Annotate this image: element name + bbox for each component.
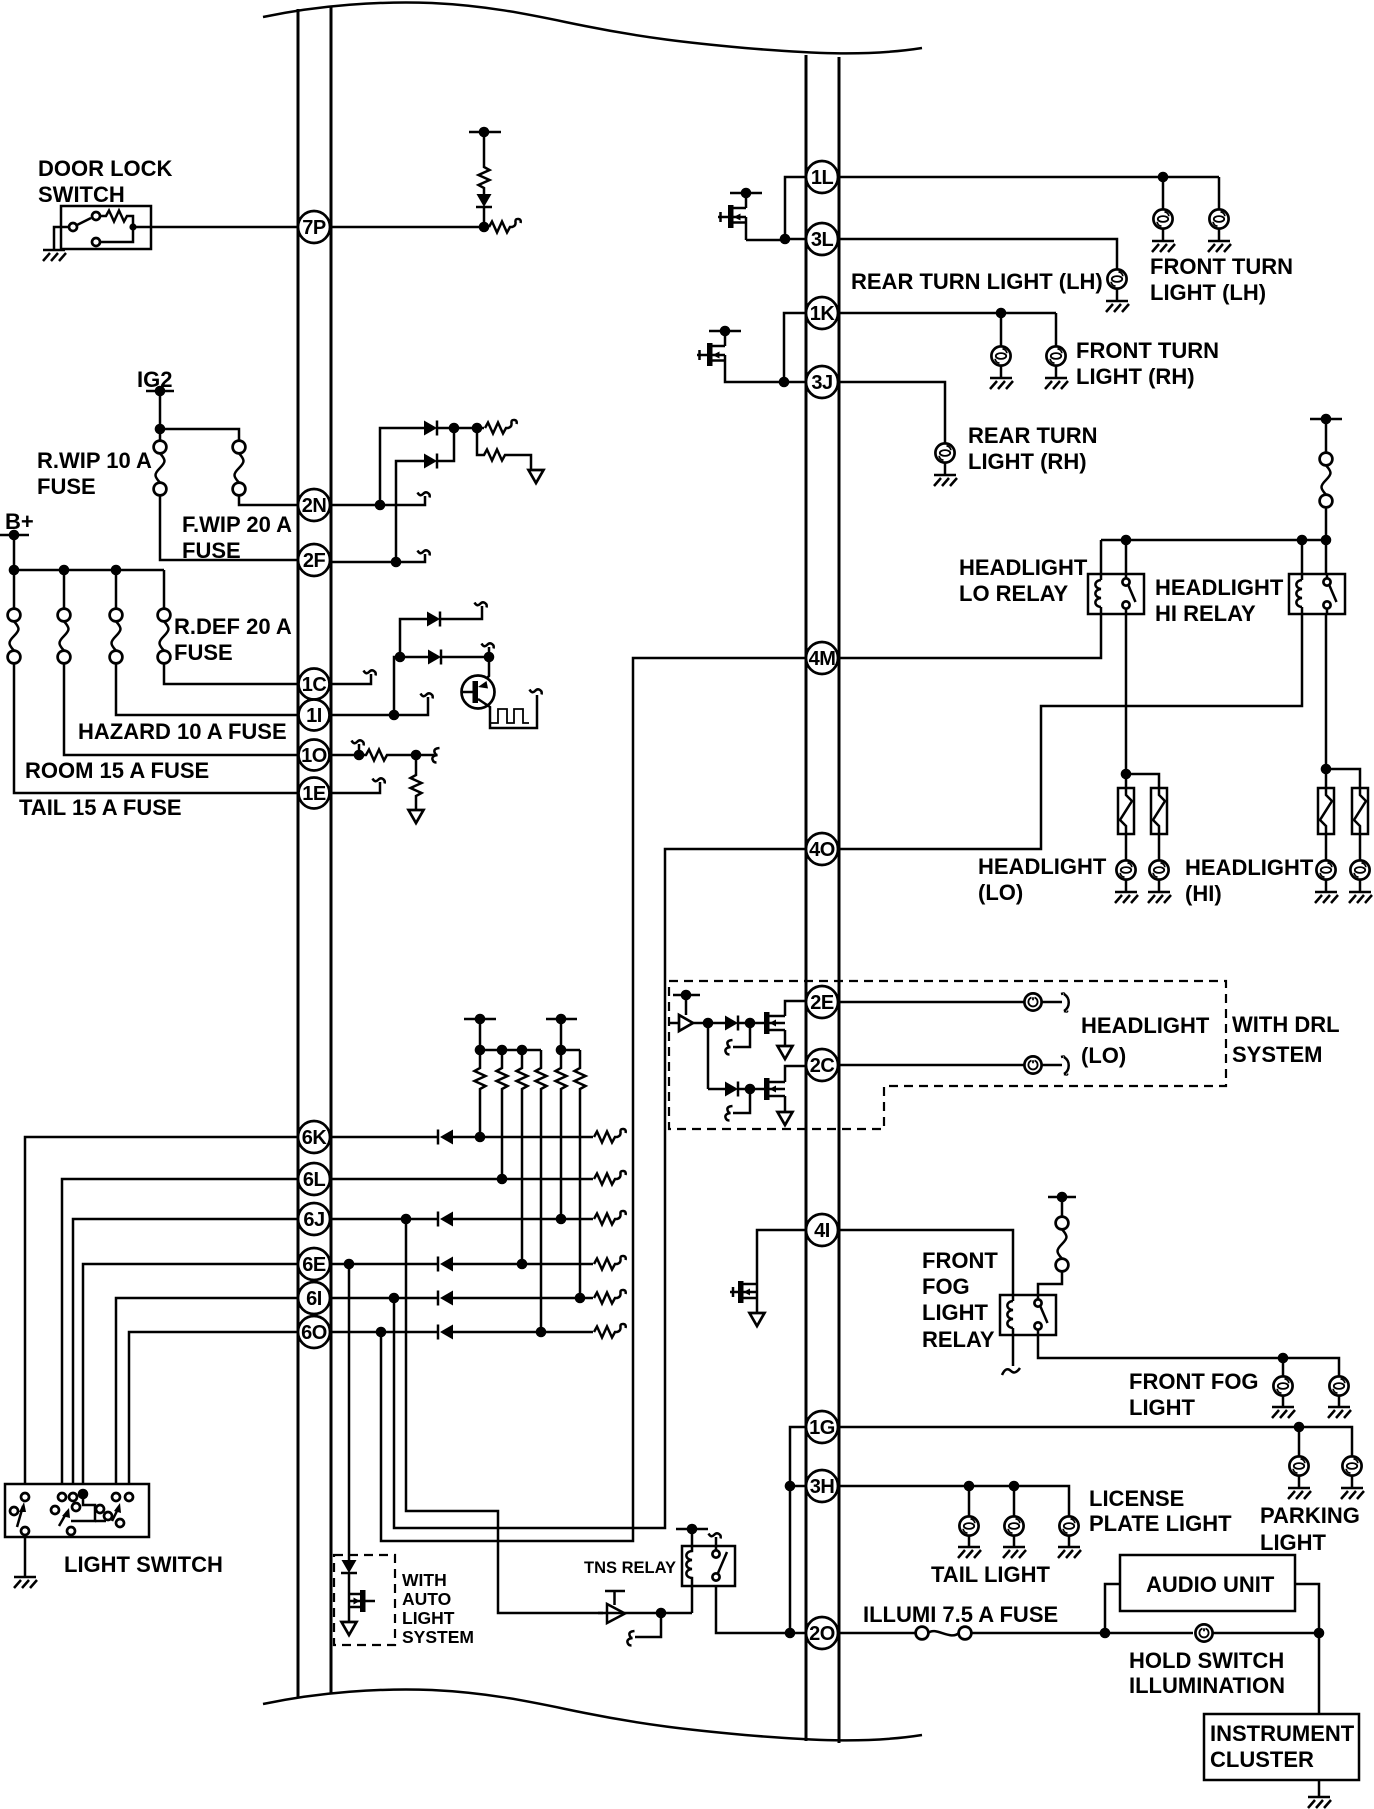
- MOSFET Q6 (2C driver): [764, 1078, 770, 1100]
- MOSFET Q2 in auto-light box: [360, 1590, 366, 1612]
- pulse waveform symbol: [491, 709, 529, 723]
- svg-text:LIGHT: LIGHT: [402, 1608, 455, 1628]
- svg-text:TAIL LIGHT: TAIL LIGHT: [931, 1562, 1051, 1587]
- svg-text:HEADLIGHT: HEADLIGHT: [1081, 1013, 1210, 1038]
- MOSFET Q7 (fog relay driver): [738, 1281, 744, 1303]
- svg-text:PARKING: PARKING: [1260, 1503, 1360, 1528]
- diode D2 (2N row): [424, 421, 437, 436]
- svg-text:(LO): (LO): [1081, 1043, 1126, 1068]
- wire HI relay switch to lamps: [1325, 614, 1328, 769]
- relay HEADLIGHT LO: [1088, 574, 1144, 614]
- wire 1I to node: [331, 714, 394, 717]
- resistor R2 continuation symbol right of node: [489, 219, 521, 233]
- resistor continuation symbol 2N row: [477, 427, 484, 430]
- connector 6J: [298, 1203, 330, 1235]
- connector 6E: [298, 1248, 330, 1280]
- svg-text:INSTRUMENT: INSTRUMENT: [1210, 1721, 1355, 1746]
- wire 2C to DRL lamp: [838, 1064, 1024, 1067]
- wire 1C stub: [331, 674, 371, 684]
- resistor continuation 6L: [594, 1171, 626, 1185]
- fuse TAIL 15 A: [13, 570, 16, 609]
- wire HAZARD fuse to 1I: [116, 663, 298, 715]
- svg-text:FRONT: FRONT: [922, 1248, 998, 1273]
- wire 1L right to front turn lamps: [838, 176, 1219, 179]
- connector 1L: [806, 161, 838, 193]
- svg-text:3H: 3H: [810, 1476, 835, 1498]
- MOSFET Q5 (2E driver): [764, 1012, 770, 1034]
- connector 7P: [298, 211, 330, 243]
- wire 6J row right: [331, 1218, 438, 1221]
- wire 2E to DRL lamp: [838, 1001, 1024, 1004]
- fusible link LO 1: [1118, 788, 1134, 834]
- svg-text:SYSTEM: SYSTEM: [402, 1627, 474, 1647]
- svg-text:6E: 6E: [302, 1254, 326, 1276]
- resistor R11: [575, 1050, 586, 1293]
- connector 3J: [806, 366, 838, 398]
- resistor R6: [475, 1050, 486, 1132]
- connector 4M: [806, 642, 838, 674]
- lamp DRL headlight LO 1: [1024, 993, 1041, 1010]
- fusible link HI 2: [1352, 788, 1368, 834]
- connector 2C: [806, 1049, 838, 1081]
- svg-text:REAR TURN LIGHT (LH): REAR TURN LIGHT (LH): [851, 269, 1103, 294]
- svg-text:LIGHT (RH): LIGHT (RH): [1076, 364, 1195, 389]
- svg-text:AUTO: AUTO: [402, 1589, 451, 1609]
- wire 2O right to illumi fuse: [838, 1632, 915, 1635]
- svg-text:1G: 1G: [809, 1417, 835, 1439]
- door lock switch internal resistor: [100, 211, 133, 228]
- DRL feed node: [673, 994, 700, 997]
- resistor bank feed node A: [464, 1018, 496, 1021]
- connector 1O: [299, 740, 330, 771]
- wire 2N to node: [331, 504, 380, 507]
- 1I stub with curl: [394, 697, 428, 715]
- svg-text:REAR TURN: REAR TURN: [968, 423, 1098, 448]
- lamp PARKING 2: [1342, 1456, 1361, 1475]
- diode D3 (2F row): [424, 454, 437, 469]
- wire 6K row right: [331, 1136, 438, 1139]
- resistor continuation 6I: [594, 1290, 626, 1304]
- lamp FRONT TURN LIGHT LH 2: [1218, 177, 1221, 209]
- diode D8 (6E row): [438, 1257, 453, 1272]
- lamp HOLD SWITCH ILLUMINATION: [1195, 1624, 1212, 1641]
- lamp TAIL 2: [1013, 1486, 1016, 1516]
- wire fog fuse to relay switch: [1038, 1271, 1062, 1295]
- svg-text:3L: 3L: [811, 229, 834, 251]
- light switch ground lead: [24, 1535, 27, 1576]
- connector 3L: [806, 223, 838, 255]
- svg-text:HEADLIGHT: HEADLIGHT: [1185, 855, 1314, 880]
- TNS switch output to 2O: [716, 1586, 806, 1633]
- fuse ROOM 15 A: [63, 570, 66, 609]
- DRL dashed enclosure: [669, 981, 1226, 1129]
- resistor R7: [497, 1050, 508, 1174]
- fuse HEAD: [1320, 453, 1333, 508]
- wire IG2 to fuse split: [159, 391, 162, 429]
- wire 2F to node: [331, 561, 396, 564]
- relay feed rail: [1101, 539, 1326, 542]
- connector 2F: [298, 544, 330, 576]
- wire 3L right to rear turn lamp: [838, 239, 1117, 269]
- svg-text:6L: 6L: [303, 1169, 326, 1191]
- wire rail down to HI relay: [1301, 540, 1304, 574]
- wire lamp to right node: [1213, 1632, 1319, 1635]
- light switch terminals: [21, 1493, 29, 1501]
- wire Q6 drain to 2C: [785, 1066, 806, 1082]
- lamp TAIL 1: [968, 1486, 971, 1516]
- light switch internal link: [71, 1494, 95, 1521]
- AUDIO UNIT box: [1120, 1555, 1295, 1611]
- wire audio unit right lead: [1295, 1584, 1319, 1633]
- connector 4O: [806, 833, 838, 865]
- diode D4 (top row): [427, 612, 440, 627]
- wire HI coil return to 4O: [838, 614, 1302, 849]
- INSTRUMENT CLUSTER box: [1204, 1714, 1359, 1780]
- door lock switch S1 box: [61, 206, 151, 249]
- svg-text:LIGHT SWITCH: LIGHT SWITCH: [64, 1552, 223, 1577]
- wire 1G left riser to 3H and 2O: [790, 1427, 806, 1633]
- svg-text:R.WIP 10 A: R.WIP 10 A: [37, 448, 152, 473]
- resistor bank bus B: [561, 1049, 580, 1052]
- svg-text:6I: 6I: [306, 1288, 322, 1310]
- svg-text:WITH: WITH: [402, 1570, 447, 1590]
- connector 4I: [806, 1214, 838, 1246]
- lamp PARKING 1: [1298, 1427, 1301, 1456]
- svg-text:SWITCH: SWITCH: [38, 182, 125, 207]
- ground below light switch: [14, 1577, 37, 1588]
- fusible link LO 2: [1151, 788, 1167, 834]
- diode D6 (6K row): [438, 1130, 453, 1145]
- resistor bank feed node B: [546, 1018, 577, 1021]
- svg-text:LIGHT: LIGHT: [1260, 1530, 1327, 1555]
- wire 3H right to tail lamps: [838, 1486, 1069, 1516]
- node junction on 7P line: [479, 222, 490, 233]
- wire 6J to light switch: [73, 1219, 298, 1484]
- svg-text:2E: 2E: [810, 992, 834, 1014]
- lamp FRONT TURN LIGHT RH 1: [1000, 313, 1003, 346]
- wire 3L left: [785, 238, 806, 241]
- lamp LICENSE PLATE: [1059, 1516, 1078, 1535]
- connector 2O: [806, 1617, 838, 1649]
- resistor continuation 6J: [594, 1211, 626, 1225]
- diode D11 in auto-light box: [341, 1560, 357, 1573]
- svg-text:LIGHT: LIGHT: [1129, 1395, 1196, 1420]
- svg-text:TNS RELAY: TNS RELAY: [584, 1559, 676, 1577]
- ground under lamp: [1152, 241, 1175, 252]
- with-auto-light dashed box: [334, 1555, 395, 1645]
- wire 6E to light switch: [83, 1264, 298, 1484]
- svg-text:ILLUMI 7.5 A FUSE: ILLUMI 7.5 A FUSE: [863, 1602, 1058, 1627]
- door lock switch ground lead: [54, 227, 69, 249]
- wire R.DEF fuse to 1C: [164, 663, 298, 684]
- lamp REAR TURN LIGHT LH: [1107, 269, 1126, 288]
- wire 1I node up: [394, 657, 400, 715]
- TNS switch curl stub: [715, 1537, 718, 1550]
- connector 6I: [298, 1282, 330, 1314]
- wire to top diode row: [400, 619, 427, 657]
- break stub below D14 node: [733, 1089, 750, 1113]
- transistor Q4 (turn signal driver RH): [697, 326, 741, 378]
- wire break symbol 2C: [1061, 1057, 1069, 1075]
- wire 7P to pull-up node: [331, 226, 484, 229]
- wire R.WIP fuse to 2F: [160, 495, 298, 560]
- diode D14 (2C branch): [725, 1082, 738, 1097]
- svg-text:1I: 1I: [306, 705, 322, 727]
- tick above buffer: [605, 1591, 625, 1605]
- svg-text:LIGHT: LIGHT: [922, 1300, 989, 1325]
- relay FRONT FOG LIGHT: [1000, 1295, 1056, 1335]
- door lock switch contacts: [69, 223, 77, 231]
- wire 6O node to 4M riser: [381, 658, 806, 1541]
- wire into TNS buffer: [598, 1612, 692, 1615]
- connector 1E: [299, 778, 330, 809]
- connector 6O: [298, 1316, 330, 1348]
- wire break symbol 2E: [1061, 994, 1069, 1012]
- svg-text:FUSE: FUSE: [174, 640, 233, 665]
- fog relay fuse feed node: [1048, 1196, 1076, 1199]
- svg-text:TAIL 15 A FUSE: TAIL 15 A FUSE: [19, 795, 182, 820]
- connector 1I: [299, 700, 330, 731]
- svg-text:AUDIO UNIT: AUDIO UNIT: [1146, 1572, 1275, 1597]
- TNS relay K1: [682, 1546, 735, 1586]
- supply node with tick above R1: [469, 131, 501, 134]
- svg-text:2O: 2O: [809, 1623, 835, 1645]
- wire 6I to light switch: [116, 1298, 298, 1484]
- svg-text:1K: 1K: [810, 303, 836, 325]
- ground below door lock switch: [43, 250, 66, 261]
- svg-text:HEADLIGHT: HEADLIGHT: [1155, 575, 1284, 600]
- svg-text:HAZARD 10 A FUSE: HAZARD 10 A FUSE: [78, 719, 287, 744]
- connector 1G: [806, 1411, 838, 1443]
- wire fuse to relay feed rail: [1325, 507, 1328, 540]
- wire 3J right to rear turn lamp RH: [838, 382, 945, 443]
- connector 2E: [806, 986, 838, 1018]
- fuse HAZARD 10 A: [115, 570, 118, 609]
- diode D7 (6J row): [438, 1212, 453, 1227]
- lamp FRONT TURN LIGHT RH 2: [1055, 313, 1058, 346]
- left connector bus: [297, 9, 300, 1697]
- wire 4I left to fog driver: [757, 1230, 806, 1284]
- wire 6E row right: [331, 1263, 438, 1266]
- headlight fuse feed node: [1310, 418, 1342, 421]
- svg-text:WITH DRL: WITH DRL: [1232, 1012, 1340, 1037]
- svg-text:6J: 6J: [303, 1209, 324, 1231]
- svg-text:FRONT TURN: FRONT TURN: [1150, 254, 1293, 279]
- svg-text:HOLD SWITCH: HOLD SWITCH: [1129, 1648, 1284, 1673]
- open ground triangle below R5: [409, 810, 424, 823]
- wire 4I right to fog relay coil: [838, 1230, 1013, 1295]
- fuse FOG: [1056, 1217, 1069, 1272]
- svg-text:(HI): (HI): [1185, 881, 1222, 906]
- ground under lamp: [1045, 378, 1068, 389]
- node at TNS coil return: [656, 1608, 667, 1619]
- resistor R9: [536, 1050, 547, 1327]
- wire ROOM fuse to 1O: [64, 663, 298, 755]
- break stub below D13 node: [733, 1023, 750, 1047]
- wire Q5 drain to 2E: [785, 1001, 806, 1016]
- svg-text:3J: 3J: [811, 372, 832, 394]
- svg-text:DOOR LOCK: DOOR LOCK: [38, 156, 173, 181]
- lamp HEADLIGHT LO 2: [1158, 834, 1161, 860]
- IG2 feed node: [146, 390, 174, 393]
- wire 6L row right: [331, 1178, 593, 1181]
- wire D3 to 2N row junction: [437, 428, 454, 461]
- wire 6I row right: [331, 1297, 438, 1300]
- svg-text:1L: 1L: [811, 167, 834, 189]
- resistor R4 (1O row): [359, 750, 411, 761]
- DRL buffer amp: [669, 1022, 679, 1025]
- open ground triangle in auto-light box: [342, 1622, 357, 1635]
- bottom body outline curve: [263, 1690, 922, 1741]
- ground under lamp: [1208, 241, 1231, 252]
- wire 6I node to 4O riser: [394, 849, 806, 1528]
- wire Q6 source to output triangle: [784, 1096, 787, 1112]
- fusible link HI 1: [1318, 788, 1334, 834]
- svg-text:HEADLIGHT: HEADLIGHT: [959, 555, 1088, 580]
- B+ rail wire: [14, 535, 164, 570]
- lamp FRONT FOG 2: [1329, 1376, 1348, 1395]
- svg-text:(LO): (LO): [978, 880, 1023, 905]
- svg-text:7P: 7P: [302, 217, 326, 239]
- light switch pole contacts: [10, 1507, 18, 1515]
- lamp FRONT FOG 1: [1282, 1358, 1285, 1376]
- ground under lamp: [1106, 301, 1129, 312]
- wire 6L to light switch: [62, 1179, 298, 1484]
- wire 1O to node: [331, 754, 359, 757]
- svg-text:F.WIP 20 A: F.WIP 20 A: [182, 512, 292, 537]
- wire 1G right to parking lamps: [838, 1427, 1352, 1456]
- break symbol right of 1O node: [416, 754, 434, 757]
- resistor R1 vertical: [479, 161, 490, 194]
- wire door lock switch to 7P: [151, 226, 298, 229]
- curl stub above D5 node: [488, 647, 491, 657]
- svg-text:R.DEF 20 A: R.DEF 20 A: [174, 614, 292, 639]
- light switch box: [5, 1484, 149, 1537]
- wire LO relay switch to lamps: [1125, 614, 1128, 774]
- svg-text:LO RELAY: LO RELAY: [959, 581, 1069, 606]
- lamp HEADLIGHT LO 1: [1125, 834, 1128, 860]
- resistor R3 to ground arrow: [477, 428, 531, 470]
- resistor continuation 6K: [594, 1129, 626, 1143]
- svg-text:FUSE: FUSE: [182, 538, 241, 563]
- svg-text:6K: 6K: [302, 1127, 328, 1149]
- connector 1K: [806, 297, 838, 329]
- break stub below TNS node: [635, 1613, 661, 1637]
- diode D13 (2E branch): [725, 1016, 738, 1031]
- wire rail down to LO relay coil: [1100, 540, 1103, 574]
- connector 2N: [298, 489, 330, 521]
- svg-text:1E: 1E: [302, 783, 326, 805]
- connector 6L: [298, 1163, 330, 1195]
- wire LO coil return to 4M: [838, 614, 1101, 658]
- buffer triangle before TNS relay: [607, 1604, 625, 1623]
- instrument cluster ground lead: [1318, 1780, 1321, 1797]
- fuse R.DEF 20 A: [163, 570, 166, 609]
- wire 2N node up to diode row: [380, 428, 424, 505]
- svg-text:ILLUMINATION: ILLUMINATION: [1129, 1673, 1285, 1698]
- wire 1L left down to 3L node: [785, 177, 806, 239]
- fog coil return squiggle: [1012, 1335, 1015, 1366]
- svg-text:SYSTEM: SYSTEM: [1232, 1042, 1322, 1067]
- svg-text:4M: 4M: [809, 648, 836, 670]
- wire audio unit left lead: [1105, 1584, 1120, 1633]
- lamp REAR TURN LIGHT RH: [935, 443, 954, 462]
- wire 1K left down to 3J node: [784, 313, 806, 382]
- diode D1 vertical (down): [483, 208, 486, 227]
- fuse F.WIP 20 A: [233, 441, 246, 496]
- connector 3H: [806, 1470, 838, 1502]
- resistor R5 vertical to ground arrow: [411, 755, 422, 810]
- lamp HEADLIGHT HI 1: [1325, 834, 1328, 860]
- diode D9 (6I row): [438, 1291, 453, 1306]
- right connector bus: [805, 55, 808, 1741]
- wire node down to 2C branch: [707, 1023, 710, 1089]
- svg-text:4I: 4I: [814, 1220, 830, 1242]
- wire 6J node to TNS diode: [406, 1219, 603, 1613]
- wire 6E node down to auto-light box: [348, 1264, 351, 1560]
- svg-text:B+: B+: [5, 509, 34, 534]
- wire F.WIP fuse to 2N: [239, 495, 298, 505]
- transistor Q3 (turn signal driver LH): [718, 188, 762, 240]
- svg-text:2F: 2F: [303, 550, 326, 572]
- B+ feed node: [0, 534, 29, 537]
- wire fuse to audio node: [971, 1632, 1193, 1635]
- lamp DRL headlight LO 2: [1024, 1056, 1041, 1073]
- svg-text:FOG: FOG: [922, 1274, 970, 1299]
- svg-text:ROOM 15 A FUSE: ROOM 15 A FUSE: [25, 758, 209, 783]
- fuse ILLUMI 7.5 A: [916, 1627, 929, 1640]
- connector 1C: [299, 669, 330, 700]
- top body outline curve: [263, 3, 922, 54]
- TNS coil return lead: [691, 1586, 694, 1613]
- wire 1K right to front turn lamps RH: [838, 312, 1056, 315]
- relay HEADLIGHT HI: [1289, 574, 1345, 614]
- svg-text:FRONT FOG: FRONT FOG: [1129, 1369, 1259, 1394]
- connector 6K: [298, 1121, 330, 1153]
- svg-text:LIGHT (LH): LIGHT (LH): [1150, 280, 1266, 305]
- svg-text:HEADLIGHT: HEADLIGHT: [978, 854, 1107, 879]
- svg-text:2C: 2C: [810, 1055, 835, 1077]
- 2F stub with curl: [396, 554, 425, 562]
- lamp HEADLIGHT HI 2: [1359, 834, 1362, 860]
- svg-text:FUSE: FUSE: [37, 474, 96, 499]
- wire 6O to light switch: [129, 1332, 298, 1484]
- wire IG2 split to F.WIP fuse: [160, 429, 239, 441]
- wire 6O row right: [331, 1331, 438, 1334]
- diode D5 (middle row): [400, 656, 428, 659]
- svg-text:LIGHT (RH): LIGHT (RH): [968, 449, 1087, 474]
- resistor continuation 6O: [594, 1324, 626, 1338]
- svg-text:6O: 6O: [301, 1322, 327, 1344]
- svg-text:HI RELAY: HI RELAY: [1155, 601, 1256, 626]
- svg-text:RELAY: RELAY: [922, 1327, 995, 1352]
- wire Q5 source to output triangle: [784, 1030, 787, 1046]
- svg-text:FRONT TURN: FRONT TURN: [1076, 338, 1219, 363]
- TNS coil feed node: [691, 1529, 694, 1546]
- resistor continuation 6E: [594, 1256, 626, 1270]
- wire fog relay switch to lamps: [1038, 1335, 1339, 1376]
- ground under lamp: [934, 475, 957, 486]
- svg-text:CLUSTER: CLUSTER: [1210, 1747, 1314, 1772]
- svg-text:1O: 1O: [301, 745, 327, 767]
- lamp FRONT TURN LIGHT LH 1: [1162, 177, 1165, 209]
- svg-text:2N: 2N: [302, 495, 327, 517]
- open ground triangle below R3: [529, 470, 544, 483]
- wire TAIL fuse to 1E: [14, 663, 298, 793]
- ground under lamp: [990, 378, 1013, 389]
- resistor R8: [517, 1050, 528, 1259]
- open ground triangle below Q7: [750, 1313, 765, 1326]
